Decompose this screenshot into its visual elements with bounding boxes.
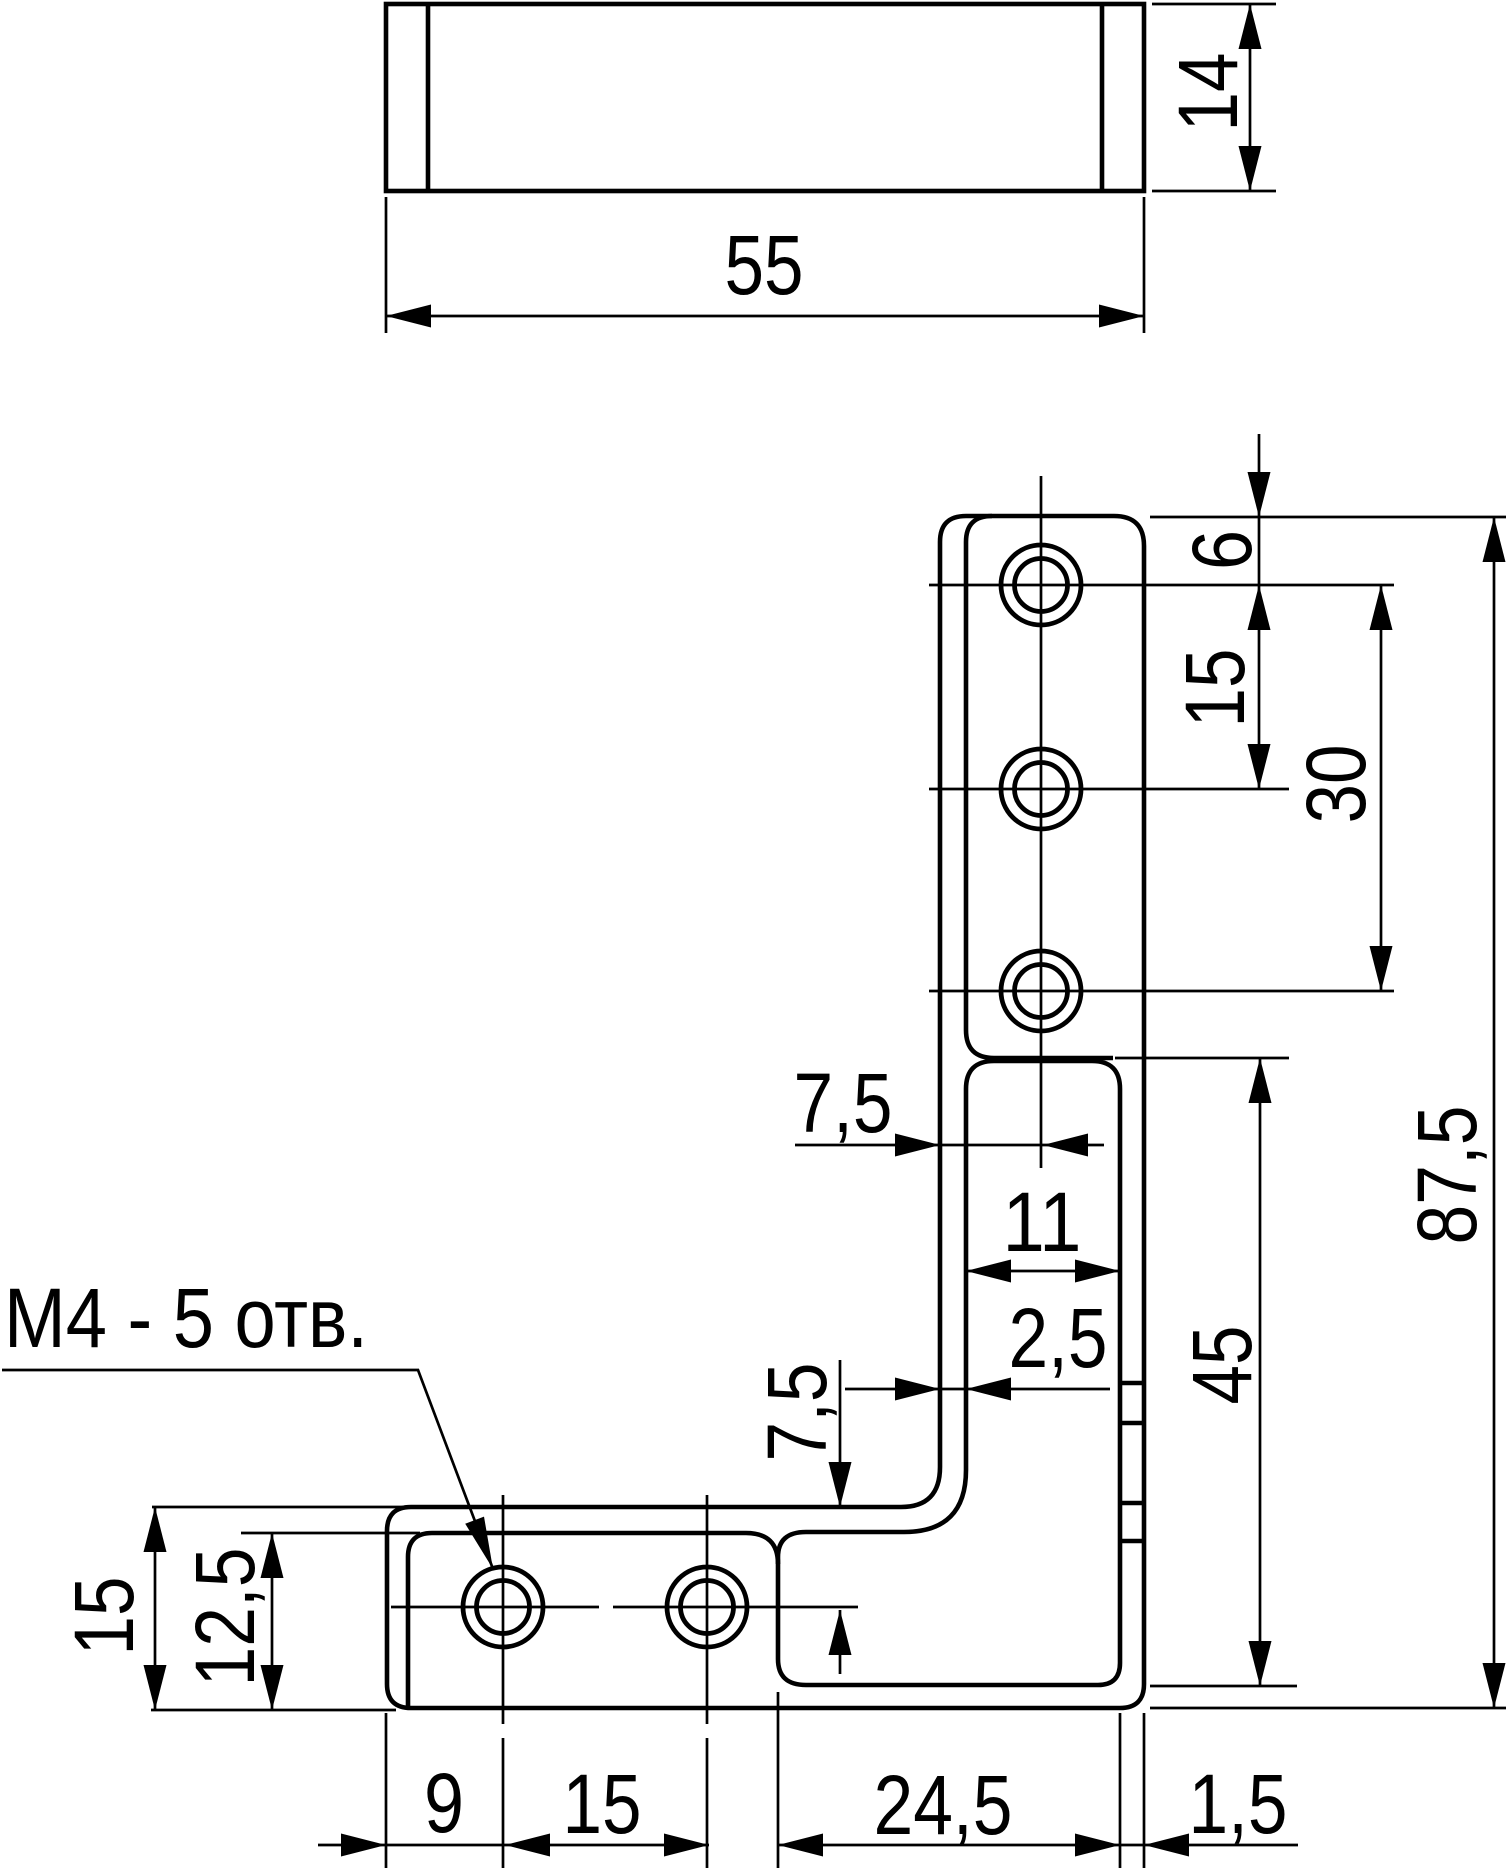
dimension 24,5 bbox=[778, 1844, 1120, 1847]
edge serration ticks bbox=[1120, 1381, 1144, 1386]
fold contour: horizontal arm flange bbox=[408, 1533, 778, 1706]
extension: 15 left top bbox=[152, 1506, 430, 1509]
dimension 14 bbox=[1249, 4, 1252, 191]
svg-text:11: 11 bbox=[1003, 1175, 1082, 1269]
svg-text:9: 9 bbox=[424, 1756, 464, 1850]
centerline hole 5 vertical bbox=[706, 1495, 709, 1724]
svg-text:7,5: 7,5 bbox=[794, 1056, 893, 1150]
svg-text:2,5: 2,5 bbox=[1009, 1291, 1108, 1385]
fold contour: right flange region (closed) bbox=[778, 1061, 1120, 1685]
svg-text:7,5: 7,5 bbox=[750, 1363, 844, 1462]
extension: 24,5 left bbox=[777, 1692, 780, 1868]
dimension 45 bbox=[1259, 1058, 1262, 1686]
hole 2 (M4) bbox=[1001, 749, 1081, 829]
svg-text:15: 15 bbox=[563, 1757, 642, 1851]
dimension 55 extension lines bbox=[385, 197, 388, 333]
hole 1 (M4) bbox=[1001, 545, 1081, 625]
dimension 12,5 bbox=[271, 1533, 274, 1710]
extension: 9 left bbox=[385, 1713, 388, 1868]
svg-text:1,5: 1,5 bbox=[1189, 1757, 1288, 1851]
bracket outer contour bbox=[387, 516, 1144, 1708]
dimension 55 bbox=[386, 315, 1144, 318]
svg-text:12,5: 12,5 bbox=[178, 1548, 272, 1687]
extension: 24,5 right bbox=[1119, 1713, 1122, 1868]
svg-text:87,5: 87,5 bbox=[1400, 1106, 1494, 1245]
dimension 7,5 upper bbox=[795, 1144, 1104, 1147]
extension: 45 bottom bbox=[1150, 1685, 1297, 1688]
centerline hole 4 vertical bbox=[502, 1495, 505, 1724]
centerline hole 2 / ext 15 bbox=[929, 788, 1289, 791]
extension: 12,5 top bbox=[241, 1532, 420, 1535]
dimension 2,5 bbox=[845, 1388, 1110, 1391]
dimension 11 bbox=[966, 1270, 1120, 1273]
centerline hole 1 / ext 6,15,30 bbox=[929, 584, 1394, 587]
svg-text:24,5: 24,5 bbox=[874, 1758, 1013, 1852]
dimension 87,5 bbox=[1493, 517, 1496, 1708]
centerline vertical through arm holes bbox=[1040, 476, 1043, 1168]
top view: bracket side projection outline bbox=[386, 4, 1144, 191]
dimension 15 bottom bbox=[505, 1844, 709, 1847]
svg-text:55: 55 bbox=[725, 218, 804, 312]
svg-text:45: 45 bbox=[1175, 1326, 1269, 1405]
extension: 45 top bbox=[1115, 1057, 1289, 1060]
dimension 1,5 bbox=[1120, 1844, 1298, 1847]
extension: 15/12,5 bottom bbox=[151, 1709, 396, 1712]
svg-text:6: 6 bbox=[1175, 530, 1269, 570]
svg-text:M4 - 5 отв.: M4 - 5 отв. bbox=[4, 1271, 368, 1365]
extension: part top edge to right bbox=[1150, 516, 1506, 519]
dimension 6 bbox=[1258, 434, 1261, 517]
dimension 30 bbox=[1380, 585, 1383, 991]
top view left flange line bbox=[426, 4, 431, 191]
fold contour: left flange of vertical arm bbox=[966, 516, 1113, 1058]
hole 5 (M4) bbox=[667, 1567, 747, 1647]
extension: 1,5 right bbox=[1143, 1713, 1146, 1868]
extension: part bottom edge to right (87,5) bbox=[1150, 1707, 1506, 1710]
leader M4 - 5 otv. bbox=[2, 1370, 493, 1569]
svg-text:30: 30 bbox=[1289, 745, 1383, 824]
dimension 15 vertical bbox=[1258, 517, 1261, 789]
dimension 14 extension lines bbox=[1152, 3, 1276, 6]
centerline hole 3 / ext 30 bbox=[929, 990, 1394, 993]
hole 3 (M4) bbox=[1001, 951, 1081, 1031]
centerline horizontal arm holes bbox=[391, 1606, 599, 1609]
dimension 15 left bbox=[154, 1507, 157, 1710]
hole 4 (M4) bbox=[463, 1567, 543, 1647]
top view right flange line bbox=[1100, 4, 1105, 191]
svg-text:14: 14 bbox=[1161, 53, 1255, 132]
svg-text:15: 15 bbox=[1168, 649, 1262, 728]
svg-text:15: 15 bbox=[57, 1577, 151, 1656]
dimension 7,5 lower bbox=[839, 1360, 842, 1507]
dimension 9 bbox=[318, 1844, 505, 1847]
